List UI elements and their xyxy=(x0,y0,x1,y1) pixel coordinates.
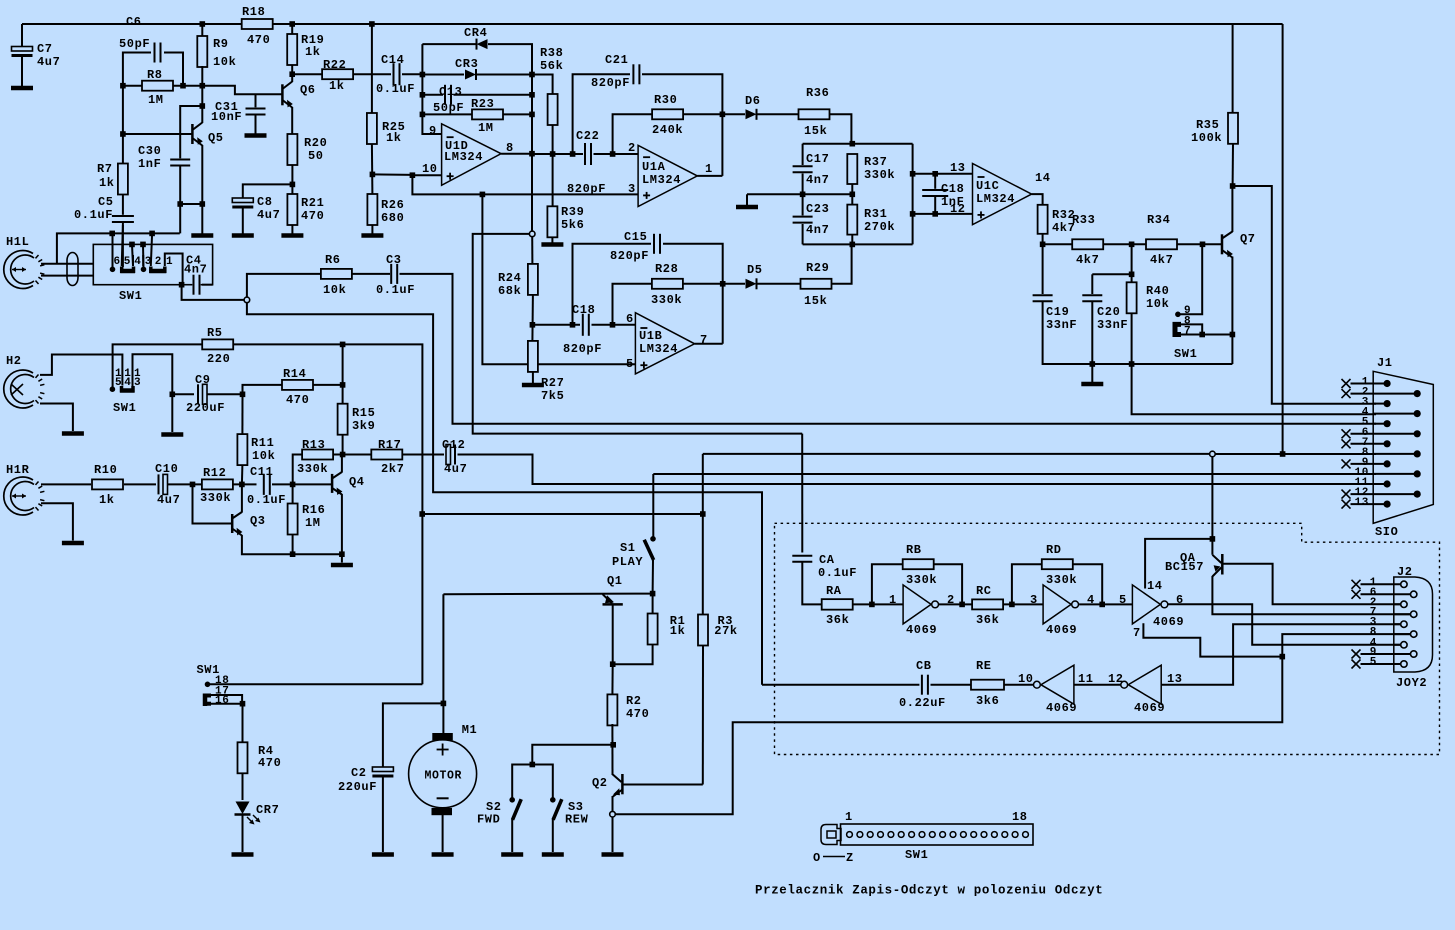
svg-text:CR4: CR4 xyxy=(464,26,487,40)
junction R28 left tap xyxy=(610,322,616,328)
svg-text:2k7: 2k7 xyxy=(381,462,404,476)
junction R23 left column xyxy=(420,112,426,118)
wire D5 lead xyxy=(723,283,745,285)
emitter arrow Q4 xyxy=(337,488,343,496)
svg-text:7: 7 xyxy=(1133,626,1141,640)
J2 pin 9 no-connect X xyxy=(1352,650,1361,659)
wire CA to RA xyxy=(802,563,822,605)
junction pin10 node xyxy=(410,172,416,178)
transistor QA xyxy=(1221,554,1224,575)
svg-text:R20: R20 xyxy=(304,136,327,150)
svg-text:C23: C23 xyxy=(806,202,829,216)
wire R35 top lead xyxy=(1232,24,1234,114)
junction y514 left xyxy=(419,511,425,517)
svg-text:7: 7 xyxy=(1184,326,1191,338)
ground Q5 xyxy=(191,233,213,238)
wire R16 top lead xyxy=(292,484,294,504)
wire C20 top lead xyxy=(1091,274,1093,294)
SW1 strip pin 11 xyxy=(950,832,956,838)
junction C4 left tap xyxy=(179,282,185,288)
SW1 strip pin 18 xyxy=(1023,832,1029,838)
emitter arrow Q7 xyxy=(1227,250,1233,258)
resistor R12 xyxy=(202,479,233,489)
svg-text:1k: 1k xyxy=(99,493,115,507)
wire R13 right lead xyxy=(333,454,343,456)
wire C2 to ground xyxy=(382,777,384,853)
wire C18 row xyxy=(532,324,580,326)
svg-text:3: 3 xyxy=(1030,593,1038,607)
SW1 box H1L xyxy=(93,244,212,284)
resistor RE xyxy=(971,680,1004,690)
svg-text:C3: C3 xyxy=(386,253,402,267)
wire Q6 collector node xyxy=(291,74,293,82)
junction rail R19 xyxy=(289,21,295,27)
SW1 pin3 contact xyxy=(141,267,147,273)
wire J1 pin 3 lead xyxy=(1373,403,1387,405)
wire R38 top link xyxy=(532,75,553,95)
junction pin16 pin17 xyxy=(240,701,246,707)
junction C15 riser xyxy=(570,322,576,328)
junction C18 top xyxy=(932,171,938,177)
wire pin8 net left xyxy=(703,453,1210,455)
J2 pin 3 xyxy=(1401,621,1407,627)
wire U1B output xyxy=(695,343,723,345)
svg-text:C22: C22 xyxy=(576,129,599,143)
svg-text:6: 6 xyxy=(114,256,121,268)
wire R9 top lead xyxy=(201,24,203,37)
wire C30 to ground rail xyxy=(179,166,181,233)
wire J1 pin 6 stub xyxy=(1351,433,1418,435)
junction Q1 R1 R2 xyxy=(610,661,616,667)
svg-text:4u7: 4u7 xyxy=(444,462,467,476)
svg-text:5k6: 5k6 xyxy=(561,218,584,232)
junction base row left xyxy=(120,131,126,137)
wire R14 right leg xyxy=(314,384,343,386)
J2 pin 9 xyxy=(1411,651,1417,657)
svg-text:3: 3 xyxy=(628,182,636,196)
svg-text:5: 5 xyxy=(626,357,634,371)
junction R28 riser xyxy=(720,281,726,287)
svg-text:10k: 10k xyxy=(323,283,346,297)
wire R31 to bottom rail xyxy=(851,235,853,245)
wire U1D left column xyxy=(422,44,441,134)
svg-text:Z: Z xyxy=(846,851,854,865)
wire C30 Q5 emitter link xyxy=(180,203,202,205)
wire ground stub xyxy=(1091,364,1093,382)
svg-text:0.22uF: 0.22uF xyxy=(899,696,946,710)
emitter arrow Q2 xyxy=(613,788,620,795)
junction mid R37 xyxy=(850,192,856,198)
wire pin6 up xyxy=(112,233,114,269)
wire J1 pin 11 lead xyxy=(1373,483,1387,485)
svg-text:CB: CB xyxy=(916,659,932,673)
wire R40 bottom lead xyxy=(1131,314,1133,365)
junction box pin4 xyxy=(129,242,135,248)
wire C9 ground stub xyxy=(171,394,173,432)
svg-text:8: 8 xyxy=(506,141,514,155)
wire inv1 out to RC xyxy=(939,603,972,605)
svg-text:220uF: 220uF xyxy=(338,780,377,794)
resistor R36 xyxy=(799,109,830,119)
svg-text:H1R: H1R xyxy=(6,463,30,477)
svg-text:Q1: Q1 xyxy=(607,574,623,588)
svg-text:C30: C30 xyxy=(138,144,161,158)
svg-text:270k: 270k xyxy=(864,220,895,234)
svg-text:R36: R36 xyxy=(806,86,829,100)
wire CR4 to right column xyxy=(488,44,532,231)
wire pin8 net right xyxy=(1215,453,1376,455)
svg-text:C8: C8 xyxy=(257,195,273,209)
wire R13 left leg xyxy=(293,455,302,485)
wire pin3 up xyxy=(142,244,145,269)
wire C2 branch xyxy=(383,703,444,768)
wire H2 ground stub xyxy=(40,404,73,432)
svg-text:13: 13 xyxy=(1355,497,1369,509)
wire Q5 base row xyxy=(123,86,192,134)
wire Q2 base row xyxy=(622,784,702,786)
wire D6 to R36 xyxy=(757,113,799,115)
junction R8 R9 node xyxy=(200,83,206,89)
wire pin13 to C9 xyxy=(133,354,173,394)
resistor R22 xyxy=(322,69,353,79)
junction Q5 collector C30 tap xyxy=(200,103,206,109)
motor M1 top terminal xyxy=(432,733,453,740)
capacitor C21 xyxy=(632,72,640,76)
resistor R18 xyxy=(242,19,273,29)
wire R26 to ground xyxy=(371,225,373,234)
resistor R35 xyxy=(1228,113,1238,144)
svg-text:15k: 15k xyxy=(804,294,827,308)
junction CR3 left xyxy=(420,72,426,78)
wire CA top lead xyxy=(801,434,803,553)
node U1D column plug xyxy=(529,231,535,237)
resistor R11 xyxy=(237,434,247,465)
wire Q3 base drop xyxy=(193,484,233,523)
wire R24 to R27 node xyxy=(531,295,534,341)
junction R40 column C20 xyxy=(1129,272,1135,278)
svg-text:33nF: 33nF xyxy=(1046,318,1077,332)
svg-text:10k: 10k xyxy=(213,55,236,69)
junction C9 ground tap xyxy=(170,392,176,398)
junction filter top xyxy=(850,141,856,147)
junction C30 link right xyxy=(200,201,206,207)
capacitor C17 xyxy=(801,165,805,173)
svg-text:50pF: 50pF xyxy=(433,101,464,115)
svg-text:R18: R18 xyxy=(242,5,265,19)
wire C18 bottom lead xyxy=(934,197,936,214)
motor M1 body xyxy=(409,740,477,808)
svg-text:7k5: 7k5 xyxy=(541,389,564,403)
svg-text:4n7: 4n7 xyxy=(806,223,829,237)
J1 pin 1 no-connect X xyxy=(1342,379,1351,388)
ground C2 xyxy=(372,852,394,857)
svg-text:470: 470 xyxy=(286,393,309,407)
junction C13 left xyxy=(420,92,426,98)
svg-text:14: 14 xyxy=(1035,171,1051,185)
emitter arrow Q6 xyxy=(287,100,293,108)
svg-text:1k: 1k xyxy=(305,45,321,59)
wire pin4 up xyxy=(132,244,133,266)
svg-text:330k: 330k xyxy=(864,168,895,182)
wire C14 to CR3 row xyxy=(402,73,422,75)
ground H2 xyxy=(62,431,84,436)
wire C13 row left xyxy=(422,94,443,96)
junction U1D out column xyxy=(529,151,535,157)
svg-text:1M: 1M xyxy=(305,516,321,530)
connector J1 outline xyxy=(1373,371,1433,523)
svg-text:4u7: 4u7 xyxy=(257,208,280,222)
wire QA base to J2 pin2 xyxy=(1222,564,1400,605)
junction R20 R21 C8 xyxy=(290,182,296,188)
wire C31 tap xyxy=(255,94,257,108)
svg-text:S1: S1 xyxy=(620,541,636,555)
svg-text:R27: R27 xyxy=(541,376,564,390)
wire Q5 emitter xyxy=(201,145,203,234)
junction rail C14 column xyxy=(369,21,375,27)
svg-text:56k: 56k xyxy=(540,59,563,73)
wire S2 S3 feed xyxy=(532,745,613,765)
svg-text:R33: R33 xyxy=(1072,213,1095,227)
resistor R37 xyxy=(847,154,857,184)
svg-text:R30: R30 xyxy=(654,93,677,107)
svg-text:5: 5 xyxy=(1119,593,1127,607)
wire R30 to riser xyxy=(684,113,723,115)
wire R28 left leg xyxy=(613,284,652,325)
switch S3 lever xyxy=(553,799,562,820)
svg-text:R35: R35 xyxy=(1196,118,1219,132)
svg-text:1k: 1k xyxy=(99,176,115,190)
wire Q1 emitter row xyxy=(443,593,652,596)
wire J1 pin 8 lead xyxy=(1373,453,1417,455)
wire pin17 link xyxy=(211,695,242,704)
svg-text:820pF: 820pF xyxy=(610,249,649,263)
svg-text:10k: 10k xyxy=(1146,297,1169,311)
svg-text:C7: C7 xyxy=(37,42,53,56)
ground filter mid xyxy=(736,205,758,210)
op-amp U1A xyxy=(638,145,697,206)
wire R1 top lead xyxy=(652,594,654,615)
svg-text:R39: R39 xyxy=(561,205,584,219)
arrow symbol H1L xyxy=(12,269,26,271)
wire J2 pin 5 stub xyxy=(1361,663,1401,665)
wire C30 branch xyxy=(180,106,202,159)
ground C9 xyxy=(161,432,183,437)
wire pin9 to Q7 base xyxy=(1181,244,1203,314)
wire U1A output xyxy=(697,175,722,177)
junction rail R9 xyxy=(200,21,206,27)
resistor R31 xyxy=(847,205,857,235)
resistor RC xyxy=(972,599,1003,609)
diode D5 xyxy=(746,279,757,289)
wire RB left leg xyxy=(872,564,902,604)
junction C13 column xyxy=(529,92,535,98)
svg-text:3k6: 3k6 xyxy=(976,694,999,708)
wire R19 top lead xyxy=(291,24,293,34)
wire R40 top lead xyxy=(1131,244,1133,283)
wire J2 pin 9 stub xyxy=(1361,653,1411,655)
J1 pin 12 no-connect X xyxy=(1342,490,1351,499)
LED CR7 xyxy=(236,802,250,815)
wire H1L upper stub xyxy=(41,263,93,265)
emitter arrow Q1 xyxy=(605,595,614,603)
resistor R19 xyxy=(287,34,297,65)
ground R21 xyxy=(281,233,303,238)
J2 pin 7 xyxy=(1411,611,1417,617)
wire C11 to Q4 base xyxy=(272,483,332,485)
junction R14 R15 column xyxy=(340,382,346,388)
wire filter top rail xyxy=(803,143,913,145)
ground C8 xyxy=(232,233,254,238)
wire R33 left lead xyxy=(1043,243,1072,245)
wire pin18 to bus xyxy=(210,683,422,685)
svg-text:C9: C9 xyxy=(195,373,211,387)
resistor R25 xyxy=(367,113,377,144)
wire R21 to ground xyxy=(291,225,293,235)
LED CR7 arrows xyxy=(247,817,253,823)
svg-text:50: 50 xyxy=(308,149,324,163)
wire H1L lower stub xyxy=(41,275,93,277)
node pin8 plug xyxy=(1210,451,1216,457)
wire U1C pin13 row xyxy=(913,173,973,175)
capacitor C3 xyxy=(390,272,398,276)
junction Q7 emitter SW7 xyxy=(1230,332,1236,338)
wire R16 bottom lead xyxy=(292,534,294,554)
svg-text:4n7: 4n7 xyxy=(184,263,207,277)
wire pin15 to R5 xyxy=(113,344,202,389)
wire R38 bottom link xyxy=(532,125,553,155)
junction R16 ground row xyxy=(290,551,296,557)
wire J1 pin 7 stub xyxy=(1351,443,1388,445)
wire C7 bottom lead xyxy=(21,57,23,87)
junction C22 R30 node xyxy=(610,151,616,157)
wire C18 to U1B pin6 xyxy=(592,324,636,326)
wire R2 top lead xyxy=(611,664,613,696)
svg-text:R40: R40 xyxy=(1146,284,1169,298)
wire QA emitter column xyxy=(1211,457,1213,555)
junction Q7 base SW tap xyxy=(1200,242,1206,248)
J2 pin 1 no-connect X xyxy=(1352,580,1361,589)
svg-text:4069: 4069 xyxy=(1153,615,1184,629)
svg-text:13: 13 xyxy=(950,161,966,175)
resistor RA xyxy=(822,599,853,610)
svg-text:C15: C15 xyxy=(624,230,647,244)
wire R9 bottom to junction xyxy=(201,66,203,86)
wire R2 to Q2 xyxy=(611,724,613,775)
dashed boundary box xyxy=(775,523,1440,754)
wire R22 to C14 xyxy=(353,73,391,75)
svg-text:1k: 1k xyxy=(670,624,686,638)
wire motor column xyxy=(442,594,444,734)
junction C18 bottom xyxy=(932,211,938,217)
svg-text:1: 1 xyxy=(845,810,853,824)
svg-text:1: 1 xyxy=(166,256,173,268)
junction R8 left xyxy=(120,83,126,89)
svg-text:D6: D6 xyxy=(745,94,761,108)
svg-text:36k: 36k xyxy=(976,613,999,627)
SW1 strip pin 14 xyxy=(981,832,987,838)
wire U1C pin12 row xyxy=(913,213,973,215)
junction C11 R16 xyxy=(290,482,296,488)
wire H1L to ground rail xyxy=(57,233,180,263)
wire Q4 collector xyxy=(341,455,343,473)
wire R4 to CR7 xyxy=(242,773,244,800)
junction right col 13 xyxy=(910,171,916,177)
wire D6 lead xyxy=(722,113,745,115)
wire H1R ground stub xyxy=(41,503,73,540)
capacitor C6 xyxy=(153,51,161,55)
wire S2 lower xyxy=(511,819,513,852)
svg-text:RD: RD xyxy=(1046,543,1062,557)
J1 pin 6 xyxy=(1414,430,1421,437)
wire R3 column xyxy=(702,454,704,616)
svg-text:C14: C14 xyxy=(381,53,404,67)
svg-text:4u7: 4u7 xyxy=(37,55,60,69)
capacitor C18 1nF xyxy=(933,189,937,197)
svg-text:4069: 4069 xyxy=(1046,623,1077,637)
svg-text:470: 470 xyxy=(626,707,649,721)
wire CR7 to ground xyxy=(242,815,244,852)
wire to S2 xyxy=(512,765,532,798)
svg-text:2: 2 xyxy=(155,256,162,268)
inverter U3D 4069 xyxy=(1041,665,1074,704)
SW1 strip pin 16 xyxy=(1002,832,1008,838)
wire J1 pin 10 lead xyxy=(1373,473,1417,475)
svg-text:RB: RB xyxy=(906,543,922,557)
svg-text:9: 9 xyxy=(429,124,437,138)
wire CB left lead xyxy=(762,684,919,686)
junction pin3 net branch xyxy=(480,192,486,198)
junction Q4 emitter ground xyxy=(339,551,345,557)
wire R28 to riser xyxy=(684,283,723,285)
svg-text:C18: C18 xyxy=(941,182,964,196)
wire R1 bottom link xyxy=(613,644,653,664)
switch S2 lever xyxy=(513,799,522,820)
svg-text:10: 10 xyxy=(422,162,438,176)
wire R35 bottom lead xyxy=(1232,144,1234,187)
svg-text:470: 470 xyxy=(301,209,324,223)
SW1 strip pin 5 xyxy=(888,832,894,838)
junction RD left tap xyxy=(1009,602,1015,608)
svg-text:4u7: 4u7 xyxy=(157,493,180,507)
resistor R8 xyxy=(142,81,173,91)
wire pin2 up xyxy=(151,233,152,266)
svg-text:R10: R10 xyxy=(94,463,117,477)
junction S1 Q1 R1 xyxy=(650,591,656,597)
wire R37 R31 link xyxy=(851,184,853,205)
resistor R2 xyxy=(607,694,617,725)
svg-text:R14: R14 xyxy=(283,367,306,381)
J1 pin 9 no-connect X xyxy=(1342,459,1351,468)
SW1 strip pin 1 xyxy=(847,832,853,838)
J2 pin 5 xyxy=(1401,661,1407,667)
wire S1 to J1 pin10 xyxy=(653,473,1376,475)
op-amp U1C xyxy=(973,164,1032,225)
wire CB to RE xyxy=(931,684,971,686)
emitter arrow Q5 xyxy=(197,137,203,145)
junction C30 link left xyxy=(177,201,183,207)
wire J1 pin 5 lead xyxy=(1373,423,1387,425)
wire R17 to C12 xyxy=(403,454,444,456)
svg-text:CR7: CR7 xyxy=(256,803,279,817)
wire R3 to Q2 base xyxy=(702,645,704,785)
wire J2 pin 7 lead tail xyxy=(1394,613,1411,615)
op-amp U1B xyxy=(635,313,694,374)
wire R34 to Q7 base xyxy=(1178,243,1223,245)
ground rail xyxy=(1081,382,1103,387)
junction RB right tap xyxy=(959,602,965,608)
J1 pin 12 xyxy=(1414,491,1421,498)
svg-text:5: 5 xyxy=(1370,657,1377,669)
